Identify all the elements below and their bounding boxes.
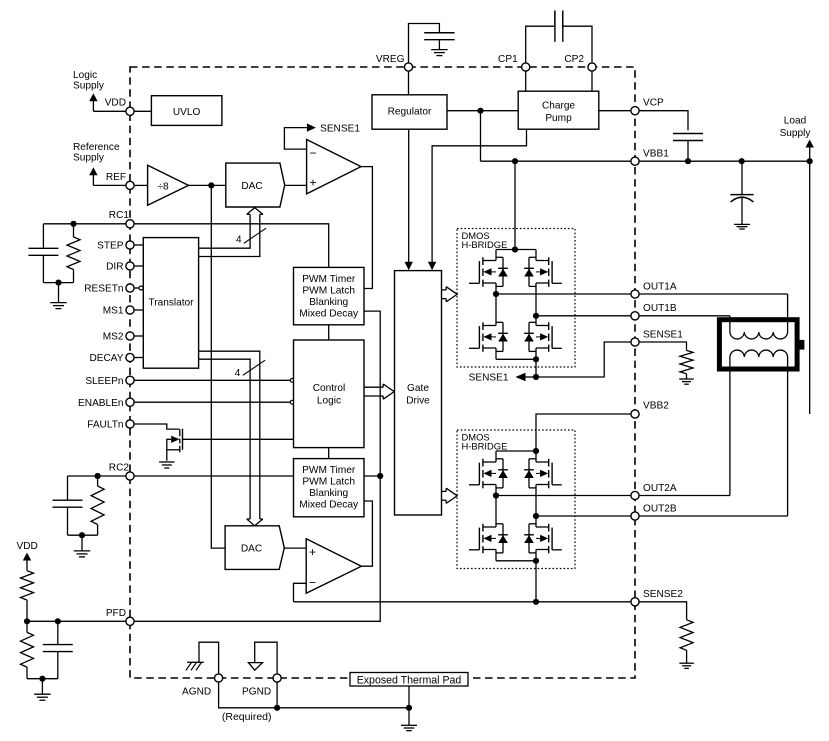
ground RC2 bbox=[74, 551, 91, 557]
transistor H-bridge 2 high-side right bbox=[551, 463, 553, 485]
svg-text:PWM Timer: PWM Timer bbox=[302, 274, 356, 285]
node regulator-charge pump junction bbox=[477, 108, 483, 114]
pin OUT2A bbox=[631, 491, 639, 499]
wire RESETn to Translator bbox=[134, 287, 139, 289]
DAC DAC2 bbox=[225, 526, 284, 570]
svg-text:RESETn: RESETn bbox=[84, 284, 123, 295]
wire PWM1 to Control Logic bbox=[328, 325, 330, 340]
pin PFD bbox=[126, 617, 134, 625]
svg-text:Blanking: Blanking bbox=[309, 488, 348, 499]
svg-text:Mixed Decay: Mixed Decay bbox=[299, 499, 359, 510]
arrow Load Supply bbox=[809, 147, 811, 162]
wire H-bridge 2 top rail bbox=[496, 450, 536, 452]
ground SENSE1 resistor bbox=[679, 379, 694, 384]
wire OUT1B to motor winding 1 left bbox=[729, 316, 731, 332]
svg-text:Translator: Translator bbox=[148, 298, 194, 309]
node RC2 ground node bbox=[79, 532, 85, 538]
wire H-bridge 2 bottom rail bbox=[495, 550, 497, 561]
wire RC1 blanking to PWM1 bbox=[130, 224, 329, 268]
amplifier divide-by-8 bbox=[148, 165, 189, 205]
wire H-bridge 1 right leg bbox=[535, 283, 537, 326]
transistor H-bridge 2 low-side right bbox=[551, 528, 553, 550]
wire DAC2 to comparator 2 bbox=[284, 547, 306, 549]
wire PFD node bbox=[27, 620, 130, 622]
bubble ENABLEn inversion bbox=[290, 400, 294, 404]
svg-text:SLEEPn: SLEEPn bbox=[85, 376, 123, 387]
ground PGND (open arrow) bbox=[248, 663, 262, 671]
wire AGND PGND common bbox=[219, 683, 409, 708]
motor load (bold box) bbox=[719, 320, 797, 369]
node OUT1A bbox=[493, 291, 499, 297]
svg-text:Mixed Decay: Mixed Decay bbox=[299, 308, 359, 319]
wire DIR to Translator bbox=[134, 265, 143, 267]
wire RC2 to PWM2 bbox=[130, 475, 294, 477]
node SENSE1 tap bbox=[533, 374, 539, 380]
wire OUT2A bbox=[496, 495, 730, 497]
node PGND common bbox=[274, 705, 280, 711]
pin STEP bbox=[126, 241, 134, 249]
arrow Gate Drive to H-bridge 2 bbox=[442, 490, 447, 492]
DAC DAC1 bbox=[226, 163, 285, 207]
wire VBB2 riser from load supply bbox=[809, 161, 811, 414]
block UVLO bbox=[151, 96, 222, 126]
capacitor VCP reservoir bbox=[673, 133, 703, 135]
pin SENSE1 bbox=[631, 338, 639, 346]
wire OUT1B bbox=[536, 315, 730, 317]
wire ENABLEn to Control Logic bbox=[134, 401, 290, 403]
block Exposed Thermal Pad bbox=[350, 673, 468, 687]
svg-text:PGND: PGND bbox=[242, 687, 271, 698]
bubble RESETn inversion bbox=[139, 286, 143, 290]
IC boundary dashed box bbox=[130, 67, 635, 678]
wire Regulator to Gate Drive bbox=[408, 129, 410, 263]
ground VREG bypass bbox=[431, 50, 448, 56]
wire SENSE1 from H-bridge 1 bbox=[535, 359, 537, 377]
pin CP2 bbox=[588, 63, 596, 71]
svg-text:SENSE2: SENSE2 bbox=[643, 589, 683, 600]
wire SLEEPn to Control Logic bbox=[134, 379, 290, 381]
wire divider output down to DAC2 bbox=[211, 185, 225, 548]
svg-text:CP2: CP2 bbox=[564, 54, 584, 65]
svg-text:Load: Load bbox=[784, 116, 806, 127]
svg-text:4: 4 bbox=[236, 235, 242, 246]
wire PFD to PWM1 and PWM2 bbox=[130, 311, 380, 621]
wire RC1 to external RC bbox=[43, 223, 130, 225]
wire SENSE1 external resistor bbox=[635, 342, 687, 350]
svg-text:VBB1: VBB1 bbox=[643, 148, 669, 159]
transistor Q1 FAULTn open-drain bbox=[179, 429, 181, 436]
wire H-bridge 1 bottom rail bbox=[495, 348, 497, 359]
node H-bridge 2 feed bbox=[533, 448, 539, 454]
svg-text:AGND: AGND bbox=[182, 687, 211, 698]
wire CP1 to flying capacitor bbox=[526, 11, 555, 92]
wire comparator 2 inverting input to SENSE2 net bbox=[294, 583, 307, 602]
svg-text:Supply: Supply bbox=[73, 152, 105, 163]
pin REF bbox=[126, 181, 134, 189]
arrow SENSE1 (bridge) bbox=[515, 373, 525, 382]
svg-text:VDD: VDD bbox=[17, 541, 38, 552]
transistor H-bridge 2 low-side left bbox=[478, 528, 480, 550]
pin CP1 bbox=[522, 63, 530, 71]
pin RESETn bbox=[126, 284, 134, 292]
wire H-bridge 2 to SENSE2 bbox=[535, 562, 537, 602]
comparator CMP2 bbox=[306, 539, 361, 594]
block Regulator bbox=[372, 95, 447, 129]
node OUT2B bbox=[533, 513, 539, 519]
wire PFD network ground bbox=[27, 678, 58, 680]
node PFD cap bbox=[55, 618, 61, 624]
motor shaft tab bbox=[797, 340, 804, 350]
svg-text:Charge: Charge bbox=[542, 100, 575, 111]
wire SENSE2 external resistor bbox=[635, 602, 687, 620]
wire H-bridge 1 top rail bbox=[496, 249, 536, 251]
svg-text:Gate: Gate bbox=[407, 383, 429, 394]
svg-text:+: + bbox=[309, 545, 316, 559]
svg-text:Supply: Supply bbox=[73, 81, 105, 92]
wire divider output to DAC1 bbox=[189, 184, 226, 186]
arrow Control Logic to Gate Drive (bus) bbox=[364, 386, 384, 388]
transistor H-bridge 1 high-side right bbox=[551, 261, 553, 283]
svg-text:REF: REF bbox=[106, 172, 126, 183]
wire FAULTn to transistor drain bbox=[134, 424, 179, 429]
wire VREG to bypass capacitor bbox=[409, 24, 440, 95]
node SENSE2 tap bbox=[533, 599, 539, 605]
pin SLEEPn bbox=[126, 376, 134, 384]
node PFD ground node bbox=[39, 676, 45, 682]
pin PGND bbox=[273, 674, 281, 682]
wire OUT1A bbox=[496, 293, 788, 295]
wire load supply rail bbox=[635, 160, 810, 162]
wire bypass cap to ground bbox=[438, 40, 440, 50]
wire Regulator to Charge Pump bbox=[447, 110, 518, 112]
svg-text:VCP: VCP bbox=[643, 98, 664, 109]
bus Translator to DAC2 (4) bbox=[199, 351, 260, 519]
wire Control Logic to PWM2 bbox=[328, 448, 330, 459]
resistor PFD upper bbox=[26, 564, 28, 571]
svg-text:Reference: Reference bbox=[73, 142, 120, 153]
pin VBB1 bbox=[631, 157, 639, 165]
capacitor charge-pump flying cap bbox=[554, 11, 556, 42]
wire OUT2B bbox=[536, 515, 788, 517]
node VBB1 to bridge feed bbox=[512, 158, 518, 164]
transistor H-bridge 1 high-side left bbox=[478, 261, 480, 283]
node RC2 external bbox=[95, 473, 101, 479]
svg-text:Regulator: Regulator bbox=[388, 107, 432, 118]
svg-text:PFD: PFD bbox=[106, 608, 126, 619]
svg-text:PWM Latch: PWM Latch bbox=[302, 476, 355, 487]
ground thermal pad bbox=[401, 725, 417, 730]
pin DIR bbox=[126, 262, 134, 270]
svg-text:OUT2B: OUT2B bbox=[643, 503, 677, 514]
pin OUT1B bbox=[631, 312, 639, 320]
wire SENSE2 net bbox=[294, 601, 636, 603]
svg-text:÷8: ÷8 bbox=[158, 181, 170, 192]
block PWM1 (PWM Timer, PWM Latch, Blanking, Mixed Decay) bbox=[294, 267, 365, 324]
svg-text:ENABLEn: ENABLEn bbox=[78, 398, 123, 409]
wire regulator node down to VBB1 rail bbox=[480, 111, 482, 162]
pin DECAY bbox=[126, 353, 134, 361]
pin MS1 bbox=[126, 306, 134, 314]
wire REF pin to divider bbox=[134, 184, 148, 186]
wire OUT1A to motor winding 1 right bbox=[787, 294, 789, 332]
node H-bridge 1 feed bbox=[512, 246, 518, 252]
svg-text:VDD: VDD bbox=[105, 98, 126, 109]
svg-text:RC1: RC1 bbox=[109, 210, 130, 221]
wire Control Logic to Q1 gate bbox=[183, 438, 295, 440]
wire RC2 network to ground bbox=[68, 534, 98, 536]
wire VDD supply arrow bbox=[93, 110, 126, 112]
wire VBB2 feed to H-bridge 2 bbox=[536, 414, 635, 451]
node load supply corner bbox=[807, 158, 813, 164]
arrow Gate Drive to H-bridge 1 bbox=[442, 289, 447, 291]
ground Q1 source bbox=[159, 462, 175, 468]
pin VREG bbox=[404, 63, 412, 71]
transistor H-bridge 2 high-side left bbox=[478, 463, 480, 485]
pin ENABLEn bbox=[126, 398, 134, 406]
node H-bridge 1 sense bbox=[533, 356, 539, 362]
node H-bridge 2 sense bbox=[533, 558, 539, 564]
bubble SLEEPn inversion bbox=[290, 378, 294, 382]
svg-text:H-BRIDGE: H-BRIDGE bbox=[462, 239, 508, 250]
wire DECAY to Translator bbox=[134, 357, 143, 359]
svg-text:DAC: DAC bbox=[241, 181, 262, 192]
resistor PFD lower bbox=[26, 621, 28, 632]
node PFD left bbox=[24, 618, 30, 624]
inductor motor winding 2 bbox=[730, 350, 788, 357]
inductor motor winding 1 bbox=[730, 332, 788, 339]
node OUT1B bbox=[533, 313, 539, 319]
wire motor winding 2 left to OUT2A bbox=[729, 357, 731, 496]
svg-text:CP1: CP1 bbox=[498, 54, 518, 65]
pin AGND bbox=[215, 674, 223, 682]
wire VBB1 internal rail bbox=[481, 160, 636, 162]
pin FAULTn bbox=[126, 420, 134, 428]
resistor RC2 R bbox=[97, 476, 99, 486]
wire Charge Pump to Gate Drive bbox=[432, 129, 526, 263]
bus Translator to DAC1 (4) bbox=[199, 214, 251, 248]
pin OUT1A bbox=[631, 290, 639, 298]
pin RC1 bbox=[126, 220, 134, 228]
svg-text:Exposed Thermal Pad: Exposed Thermal Pad bbox=[357, 674, 462, 686]
wire MS1 to Translator bbox=[134, 309, 143, 311]
wire RC1 network to ground bbox=[43, 282, 73, 284]
svg-text:Blanking: Blanking bbox=[309, 297, 348, 308]
comparator CMP1 bbox=[307, 140, 361, 194]
wire VDD pin to UVLO bbox=[134, 110, 151, 112]
svg-text:OUT1A: OUT1A bbox=[643, 281, 677, 292]
svg-text:DIR: DIR bbox=[106, 262, 123, 273]
pin OUT2B bbox=[631, 512, 639, 520]
svg-text:Drive: Drive bbox=[406, 396, 430, 407]
capacitor VREG bypass bbox=[424, 32, 454, 34]
block Control Logic bbox=[294, 340, 365, 448]
wire H-bridge 2 left leg bbox=[495, 485, 497, 528]
pin VBB2 bbox=[631, 410, 639, 418]
node OUT2A bbox=[493, 492, 499, 498]
svg-text:SENSE1: SENSE1 bbox=[469, 373, 509, 384]
svg-text:DECAY: DECAY bbox=[89, 353, 123, 364]
ground VBB decoupling cap bbox=[734, 224, 750, 229]
capacitor RC1 C bbox=[42, 224, 44, 249]
wire DAC1 to comparator 1 bbox=[285, 184, 307, 186]
svg-text:MS1: MS1 bbox=[103, 306, 124, 317]
transistor H-bridge 1 low-side left bbox=[478, 326, 480, 348]
svg-text:RC2: RC2 bbox=[109, 463, 130, 474]
wire H-bridge 1 left leg bbox=[495, 283, 497, 326]
capacitor VBB decoupling bbox=[741, 161, 743, 194]
ground SENSE2 resistor bbox=[679, 663, 694, 668]
wire VCP external to capacitor bbox=[635, 111, 688, 131]
block PWM2 (PWM Timer, PWM Latch, Blanking, Mixed Decay) bbox=[294, 459, 365, 517]
svg-text:VBB2: VBB2 bbox=[643, 400, 669, 411]
resistor SENSE1 bbox=[680, 350, 693, 373]
node PFD to PWM2 bbox=[377, 473, 383, 479]
svg-text:Control: Control bbox=[313, 383, 346, 394]
wire thermal pad to ground bbox=[408, 686, 410, 708]
svg-text:−: − bbox=[309, 575, 316, 589]
svg-text:VREG: VREG bbox=[376, 54, 405, 65]
wire STEP to Translator bbox=[134, 244, 143, 246]
node decoupling cap bbox=[739, 158, 745, 164]
svg-text:H-BRIDGE: H-BRIDGE bbox=[462, 440, 508, 451]
wire RC2 to external RC bbox=[68, 475, 131, 477]
svg-text:Logic: Logic bbox=[73, 70, 97, 81]
block Gate Drive bbox=[395, 271, 442, 515]
wire H-bridge 2 right leg bbox=[535, 485, 537, 528]
svg-text:SENSE1: SENSE1 bbox=[320, 124, 360, 135]
svg-text:PWM Latch: PWM Latch bbox=[302, 285, 355, 296]
block Translator bbox=[143, 238, 198, 369]
arrow VDD supply bbox=[26, 560, 28, 565]
svg-text:SENSE1: SENSE1 bbox=[643, 329, 683, 340]
ground AGND (signal ground) bbox=[187, 661, 204, 663]
ground PFD network bbox=[34, 694, 51, 700]
wire SENSE1 to pin bbox=[536, 342, 635, 377]
capacitor PFD bbox=[57, 621, 59, 644]
wire motor winding 2 right to OUT2B bbox=[787, 357, 789, 516]
wire REF supply arrow bbox=[93, 184, 126, 186]
wire CP2 to flying capacitor bbox=[563, 11, 592, 92]
svg-text:4: 4 bbox=[235, 368, 241, 379]
wire comparator 1 inverting input to SENSE1 bbox=[284, 128, 307, 150]
svg-text:OUT2A: OUT2A bbox=[643, 483, 677, 494]
svg-text:DAC: DAC bbox=[241, 544, 262, 555]
wire MS2 to Translator bbox=[134, 335, 143, 337]
pin VDD bbox=[126, 107, 134, 115]
svg-text:STEP: STEP bbox=[97, 241, 124, 252]
wire VCP internal bbox=[599, 110, 635, 112]
svg-text:PWM Timer: PWM Timer bbox=[302, 465, 356, 476]
block Charge Pump bbox=[518, 91, 599, 129]
wire comparator 2 output to PWM2 bbox=[361, 501, 372, 566]
node divider output bbox=[208, 182, 214, 188]
svg-text:Supply: Supply bbox=[780, 128, 812, 139]
svg-text:−: − bbox=[309, 146, 316, 160]
ground RC1 bbox=[50, 303, 67, 309]
node RC1 ground node bbox=[55, 280, 61, 286]
node VCP cap to VBB1 bbox=[685, 158, 691, 164]
wire comparator 1 output to PWM1 bbox=[361, 167, 372, 289]
pin RC2 bbox=[126, 472, 134, 480]
pin SENSE2 bbox=[631, 598, 639, 606]
resistor RC1 R bbox=[73, 224, 75, 237]
pin MS2 bbox=[126, 332, 134, 340]
svg-text:MS2: MS2 bbox=[103, 332, 124, 343]
svg-text:+: + bbox=[309, 175, 316, 189]
svg-text:OUT1B: OUT1B bbox=[643, 303, 677, 314]
H-bridge 2 box (DMOS H-BRIDGE) bbox=[457, 430, 575, 569]
svg-text:Pump: Pump bbox=[545, 113, 572, 124]
resistor SENSE2 bbox=[680, 620, 693, 651]
capacitor RC2 C bbox=[67, 476, 69, 500]
svg-text:UVLO: UVLO bbox=[173, 107, 201, 118]
svg-text:(Required): (Required) bbox=[222, 711, 272, 723]
wire AGND to signal ground symbol bbox=[199, 642, 219, 673]
H-bridge 1 box (DMOS H-BRIDGE) bbox=[457, 229, 575, 368]
pin VCP bbox=[631, 107, 639, 115]
wire VBB1 to H-bridge 1 feed bbox=[514, 161, 516, 249]
node thermal pad ground bbox=[406, 705, 412, 711]
transistor H-bridge 1 low-side right bbox=[551, 326, 553, 348]
arrow SENSE1 (top) bbox=[307, 123, 316, 131]
svg-text:Logic: Logic bbox=[317, 396, 341, 407]
wire PGND to power ground symbol bbox=[255, 642, 277, 673]
node RC1 external bbox=[70, 221, 76, 227]
svg-text:FAULTn: FAULTn bbox=[87, 420, 123, 431]
